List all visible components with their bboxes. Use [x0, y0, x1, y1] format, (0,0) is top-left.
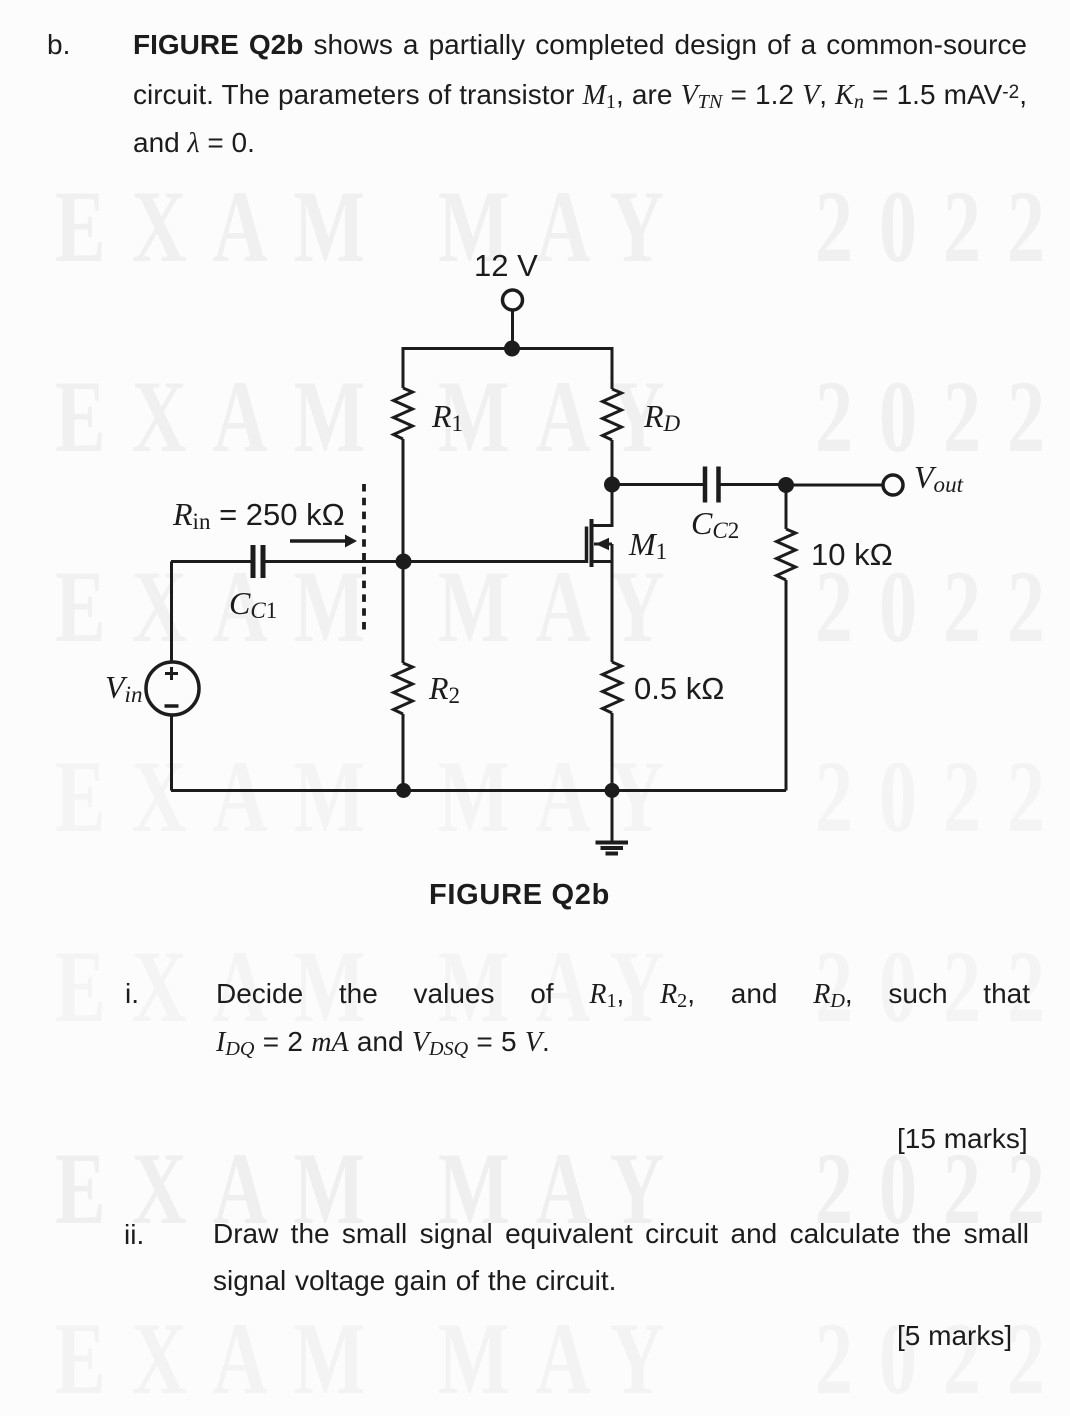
ground	[596, 791, 629, 854]
node output	[778, 477, 794, 493]
wire source to 0.5k	[611, 544, 614, 662]
wire supply stub	[511, 311, 514, 350]
wire RD top lead	[611, 347, 614, 389]
wire Vin vertical top	[170, 562, 173, 662]
label 0.5k	[634, 673, 724, 704]
wire out node to RL	[785, 485, 788, 529]
dashed boundary line	[362, 484, 366, 634]
wire RL to bottom rail	[785, 580, 788, 791]
label M1	[629, 528, 667, 560]
question text	[47, 31, 70, 59]
node bottom left junction	[396, 783, 411, 798]
resistor RL 10k	[777, 529, 796, 580]
label 10k	[811, 539, 893, 570]
wire out node to Vout terminal	[786, 484, 883, 487]
resistor RS 0.5k	[603, 662, 622, 713]
source Vin	[146, 662, 199, 715]
label CC2	[691, 507, 739, 539]
capacitor CC2	[705, 467, 719, 503]
wire drain to CC2	[612, 483, 704, 486]
label RD	[644, 400, 680, 432]
wire RS bottom lead	[611, 713, 614, 791]
transistor M1	[587, 485, 613, 568]
wire Vin top lead	[171, 560, 251, 563]
wire R1 top lead	[402, 347, 405, 388]
terminal Vout	[883, 475, 903, 495]
label 12V	[474, 250, 538, 281]
resistor R1	[394, 388, 413, 439]
wire R2 bottom lead	[402, 714, 405, 791]
node bottom source junction	[605, 783, 620, 798]
label Vin	[105, 671, 142, 703]
node supply junction	[504, 341, 520, 357]
node gate junction	[396, 554, 412, 570]
question i	[125, 980, 139, 1008]
label R2	[429, 672, 460, 704]
watermark rows	[55, 176, 391, 279]
capacitor CC1	[253, 545, 263, 578]
node drain	[604, 477, 620, 493]
resistor R2	[394, 663, 413, 714]
supply terminal 12V	[503, 290, 523, 310]
wire Vin vertical bottom	[170, 715, 173, 791]
label Rin = 250k	[173, 498, 345, 530]
question ii	[124, 1221, 144, 1249]
label R1	[432, 400, 463, 432]
wire gate lead	[266, 560, 587, 563]
input impedance arrow	[290, 535, 357, 548]
wire R1 to gate node	[402, 439, 405, 663]
resistor RD	[603, 389, 622, 440]
wire CC2 to out node	[720, 483, 786, 486]
wire bottom rail	[171, 789, 786, 792]
wire RD to drain node	[611, 440, 614, 484]
caption FIGURE Q2b	[429, 881, 610, 910]
label Vout	[914, 461, 963, 493]
wire top rail	[402, 347, 614, 350]
label CC1	[229, 587, 277, 619]
